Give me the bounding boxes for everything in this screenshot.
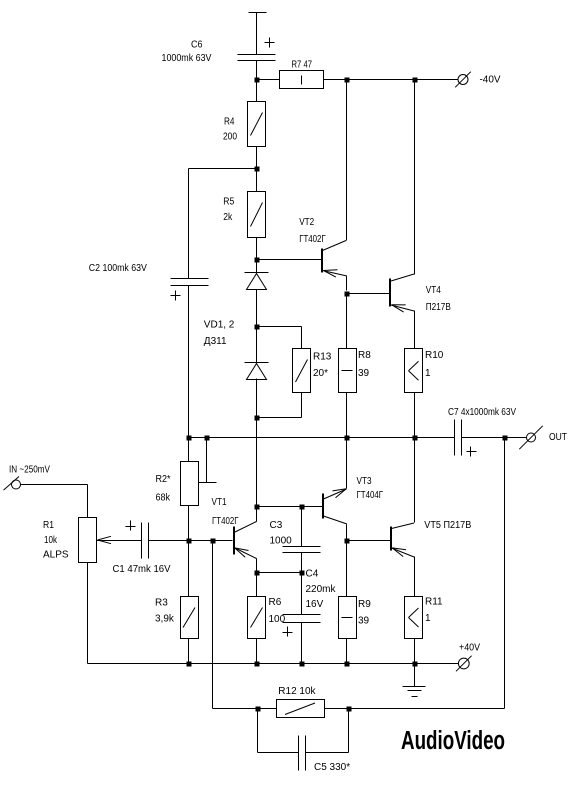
- svg-text:1: 1: [425, 613, 431, 624]
- svg-text:200: 200: [223, 132, 237, 143]
- svg-text:C2 100mk 63V: C2 100mk 63V: [89, 263, 147, 274]
- wire R4 to node: [256, 147, 258, 169]
- transistor VT4 P217V: [390, 80, 451, 349]
- resistor R11 1: [405, 597, 444, 639]
- wire C1 to VT1 base: [149, 540, 233, 542]
- wire mid rail right segment: [462, 437, 527, 439]
- wire bias node down to VT1 collector node (crosses rail): [256, 418, 258, 507]
- svg-text:C3: C3: [270, 520, 283, 531]
- junction C3 / C4: [300, 571, 305, 576]
- resistor R8 39: [339, 349, 372, 393]
- svg-text:-40V: -40V: [480, 75, 501, 86]
- junction ground rail / R9: [345, 662, 350, 667]
- resistor R7 47: [280, 60, 324, 89]
- wire R7 to -40V rail: [324, 79, 459, 81]
- svg-text:R2*: R2*: [156, 474, 171, 485]
- junction mid rail / C2 / R2: [187, 436, 192, 441]
- wire R1 wiper to C1: [97, 540, 142, 542]
- wire VD2 to node: [256, 379, 258, 418]
- svg-text:20*: 20*: [313, 368, 328, 379]
- resistor R2* 68k: [156, 462, 199, 506]
- junction base line / feedback: [211, 539, 216, 544]
- junction VT1 collector / C3 / VT3 base: [255, 505, 260, 510]
- wire R2 to base node: [188, 506, 190, 541]
- wire R3 to ground rail: [188, 639, 190, 664]
- junction VT1 emitter / R6: [255, 571, 260, 576]
- potentiometer R1 10k ALPS: [43, 518, 97, 563]
- junction ground rail / R6: [255, 662, 260, 667]
- svg-text:R8: R8: [358, 350, 371, 361]
- svg-text:68k: 68k: [156, 493, 171, 504]
- junction mid rail / R2 tap: [205, 436, 210, 441]
- svg-text:R6: R6: [269, 597, 282, 608]
- svg-text:39: 39: [358, 368, 370, 379]
- transistor VT5 P217V: [391, 438, 472, 597]
- svg-text:16V: 16V: [306, 599, 324, 610]
- wire R13 bottom to node: [257, 393, 302, 418]
- svg-text:R11: R11: [425, 597, 443, 608]
- wire VT1 collector node to VT3 base: [257, 506, 323, 508]
- wire node to R6: [256, 573, 258, 597]
- svg-text:1000: 1000: [270, 536, 293, 547]
- resistor R9 39: [339, 597, 372, 639]
- svg-text:1000mk 63V: 1000mk 63V: [162, 53, 212, 64]
- wire VT1 emitter row: [257, 572, 302, 574]
- wire C2 to mid rail: [188, 286, 190, 438]
- wire node to R13 top: [257, 327, 302, 349]
- junction base line / R2 / R3: [187, 539, 192, 544]
- svg-text:C4: C4: [306, 569, 319, 580]
- wire feedback up to base node (crosses ground rail): [212, 541, 214, 709]
- svg-text:ALPS: ALPS: [43, 550, 69, 561]
- wire C5 left branch: [258, 709, 299, 753]
- junction ground rail / R11 / ground: [413, 662, 418, 667]
- junction R4/R5/C2 branch: [255, 167, 260, 172]
- svg-text:2k: 2k: [223, 212, 233, 223]
- resistor R10 1: [405, 349, 444, 393]
- svg-text:+40V: +40V: [459, 643, 480, 654]
- svg-text:ГТ402Г: ГТ402Г: [299, 234, 326, 245]
- junction VT3 collector / VT5 base / R9: [345, 539, 350, 544]
- capacitor C7 4x1000mk 63V: [448, 407, 516, 457]
- junction ground rail / C4: [300, 662, 305, 667]
- svg-text:C7 4x1000mk 63V: C7 4x1000mk 63V: [448, 407, 516, 418]
- svg-text:R3: R3: [155, 598, 168, 609]
- svg-text:10k: 10k: [44, 535, 58, 546]
- capacitor C4 220mk 16V: [283, 569, 337, 637]
- svg-text:VT4: VT4: [426, 285, 441, 296]
- svg-text:C5 330*: C5 330*: [314, 762, 350, 773]
- svg-text:R10: R10: [425, 350, 444, 361]
- wire ground rail: [88, 663, 459, 665]
- wire R10 to mid rail: [414, 393, 416, 438]
- svg-text:C1 47mk 16V: C1 47mk 16V: [113, 564, 171, 575]
- svg-text:R4: R4: [224, 117, 235, 128]
- wire feedback bottom right segment: [325, 708, 505, 710]
- resistor R12 10k: [277, 686, 325, 718]
- wire mid rail left segment: [189, 437, 455, 439]
- wire R9 to ground rail: [346, 639, 348, 664]
- junction VT2 emitter/VT4 base/R8: [345, 292, 350, 297]
- wire node to R4: [256, 80, 258, 102]
- junction R12 line / C5 left: [256, 707, 261, 712]
- svg-text:IN ~250mV: IN ~250mV: [9, 465, 50, 476]
- wire VT3 collector node to VT5 base: [347, 540, 391, 542]
- svg-text:C6: C6: [191, 40, 203, 51]
- transistor VT1 GT402G: [212, 497, 257, 573]
- junction VD1/VD2/R13: [255, 325, 260, 330]
- wire rail to R2: [188, 438, 190, 462]
- resistor R4 200: [223, 102, 266, 147]
- wire C6 to node: [256, 61, 258, 80]
- svg-text:R12 10k: R12 10k: [278, 686, 316, 697]
- wire node to R7: [257, 79, 280, 81]
- svg-text:VT2: VT2: [299, 217, 314, 228]
- wire node to VT2 base: [257, 259, 322, 261]
- R2 tap bar: [199, 482, 217, 484]
- resistor R5 2k: [223, 192, 265, 238]
- svg-text:R1: R1: [43, 520, 54, 531]
- svg-text:39: 39: [358, 616, 370, 627]
- transistor VT2 GT402G: [299, 80, 347, 291]
- resistor R6 100: [248, 597, 286, 639]
- wire base node to R3: [188, 541, 190, 597]
- resistor R3 3,9k: [155, 597, 199, 639]
- wire node to VD1: [256, 260, 258, 273]
- junction mid rail / R8 / VT3 emitter: [345, 436, 350, 441]
- svg-text:AudioVideo: AudioVideo: [401, 727, 505, 755]
- capacitor C5 330*: [299, 736, 351, 774]
- junction -40V rail / VT2 collector: [345, 78, 350, 83]
- wire R5 to node: [256, 238, 258, 260]
- capacitor C2 100mk 63V: [89, 263, 209, 301]
- junction VD2/R13 bottom: [255, 416, 260, 421]
- wire node to R8: [346, 294, 348, 349]
- resistor R13 20*: [293, 349, 332, 393]
- svg-text:VD1, 2: VD1, 2: [204, 320, 235, 331]
- junction ground rail / R3: [187, 662, 192, 667]
- svg-text:VT3: VT3: [357, 476, 372, 487]
- svg-text:OUT: OUT: [549, 432, 567, 443]
- capacitor C6 1000mk 63V: [162, 38, 276, 65]
- wire node to C2: [189, 169, 257, 279]
- ground symbol: [403, 664, 426, 697]
- junction C6/R4/R7: [255, 78, 260, 83]
- terminal -40V: [455, 72, 501, 88]
- wire node to C4: [301, 573, 303, 615]
- svg-text:ГТ404Г: ГТ404Г: [357, 490, 384, 501]
- svg-text:R9: R9: [358, 599, 371, 610]
- diode VD2 D311: [245, 363, 269, 380]
- svg-text:R7 47: R7 47: [292, 60, 313, 71]
- wire R11 to ground rail: [414, 639, 416, 664]
- wire node to R5: [256, 169, 258, 192]
- diode VD1 D311: [204, 273, 269, 348]
- junction R12 line / C5 right: [347, 707, 352, 712]
- svg-text:Д311: Д311: [204, 336, 227, 347]
- svg-text:VT5 П217В: VT5 П217В: [424, 520, 471, 531]
- capacitor C3 1000: [270, 520, 321, 553]
- wire node to VD2: [256, 327, 258, 363]
- svg-text:220mk: 220mk: [306, 584, 337, 595]
- capacitor C1 47mk 16V: [113, 521, 171, 576]
- junction mid rail / R10 / VT5 collector: [413, 436, 418, 441]
- wire node to C3: [301, 507, 303, 547]
- junction R5/VD1/VT2 base: [255, 258, 260, 263]
- wire C5 right branch: [306, 709, 349, 753]
- svg-text:100: 100: [269, 614, 286, 625]
- wire R2 tap stub: [206, 438, 208, 483]
- wire VT2 emitter node to VT4 base: [347, 293, 391, 295]
- wire R1 bottom to ground rail: [87, 563, 89, 664]
- junction -40V rail / VT4 collector: [413, 78, 418, 83]
- wire node to R9: [346, 541, 348, 597]
- svg-text:R5: R5: [223, 197, 234, 208]
- wire R6 to ground rail: [256, 639, 258, 664]
- wire top bar to C6: [256, 13, 258, 55]
- wire VD1 to node: [256, 290, 258, 327]
- svg-text:П217В: П217В: [426, 302, 451, 313]
- terminal IN: [4, 465, 51, 491]
- svg-text:ГТ402Г: ГТ402Г: [212, 516, 239, 527]
- terminal +40V: [456, 643, 480, 672]
- svg-text:3,9k: 3,9k: [155, 614, 175, 625]
- wire IN to R1: [21, 485, 88, 518]
- svg-text:VT1: VT1: [212, 497, 227, 508]
- svg-text:1: 1: [425, 368, 431, 379]
- wire C4 to ground rail: [301, 623, 303, 664]
- wire R8 to mid rail: [346, 393, 348, 438]
- R1 wiper arrow: [98, 536, 112, 543]
- wire feedback from OUT node down: [504, 438, 506, 709]
- top rail bar: [249, 12, 267, 14]
- transistor VT3 GT404G: [323, 438, 383, 541]
- terminal OUT: [519, 426, 567, 449]
- wire C3 to node: [301, 553, 303, 573]
- svg-text:R13: R13: [313, 352, 332, 363]
- junction C3 top: [300, 505, 305, 510]
- wire feedback bottom left segment: [213, 708, 277, 710]
- junction mid rail / feedback: [503, 436, 508, 441]
